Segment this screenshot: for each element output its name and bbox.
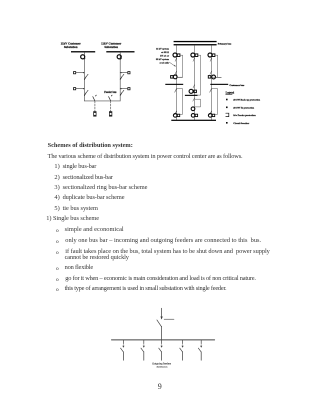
branch switch 1 [93,95,97,101]
outgoing column 3 isolator [210,88,212,92]
svg-text:Circuit breaker: Circuit breaker [233,122,250,125]
outgoing column 3 lower isolator [210,111,212,115]
customer bus left section [165,84,183,85]
customer bus right section [210,84,228,85]
svg-text:40 SW Back up protection: 40 SW Back up protection [233,99,260,102]
incoming feeder wire lower [161,327,163,340]
isolator switch left upper [84,75,88,80]
outgoing column 1 isolator [175,88,177,92]
svg-text:40 SW To protection: 40 SW To protection [233,106,255,109]
outgoing feeder 4 [180,340,184,360]
primary bus (lower bar) [174,44,217,45]
column 3 lower breaker circle [212,75,216,79]
legend item 3: feeder protection [226,113,257,117]
bottom bus [171,120,216,121]
relay box left upper [74,72,85,74]
page number [158,384,162,391]
label: incoming line [164,318,174,320]
column 3 lower relay square [208,76,211,79]
label: 11kV Customer Substation (left) [61,42,82,49]
CT circle right [117,55,121,59]
outgoing column 2 breaker [191,114,197,118]
load fuse box 1 [94,112,97,117]
outgoing column 3 breaker [208,114,214,118]
column 2 relay square [195,54,198,57]
legend item 2: to protection [226,106,255,109]
relay box right lower [120,88,130,90]
column 2 breaker circle [191,53,195,57]
column 1 relay square [177,54,180,57]
isolator switch right upper [120,75,124,80]
outgoing column 2 bypass loop [195,99,201,107]
outgoing column 2 CT circle [191,107,195,111]
incoming isolator blade [157,320,162,327]
isolator switch right lower [120,91,124,96]
outgoing feeder 1 [121,340,125,360]
svg-text:Primary bus: Primary bus [218,43,231,46]
svg-text:at s/s side: at s/s side [160,62,169,65]
wire: load drop 2 (dashed) [110,101,112,111]
feeder column 2 vertical [194,45,196,120]
outgoing column 2 isolator [193,98,195,101]
column 3 bypass wire [212,55,218,77]
column 1 bypass wire [177,55,183,77]
column 3 relay square [212,54,215,57]
column 2 upper isolator [193,58,195,61]
isolator switch left lower [84,91,88,96]
svg-text:S/w Feeder protection: S/w Feeder protection [233,114,256,117]
incoming feeder wire [161,308,163,319]
column 3 lower isolator [210,71,212,74]
wire: left feeder vertical [83,52,85,101]
feeder column 1 vertical [176,45,178,120]
column 1 lower isolator [175,71,177,74]
outgoing column 3 bypass loop [212,89,218,115]
CT circle left [81,55,85,59]
label: 11kV Customer Substation (right) [101,42,122,49]
bus-bar right [106,51,134,52]
svg-text:Substation: Substation [64,45,78,49]
svg-text:Customer bus: Customer bus [229,84,244,87]
column 2 mid breaker circle [189,89,193,93]
svg-text:Feeder bus: Feeder bus [104,91,116,94]
relay box right upper [120,72,130,74]
wire: bottom tie [84,100,120,102]
column 1 lower relay square [171,76,174,79]
outgoing feeder 2 [141,340,145,360]
incoming feeder arrowhead [160,317,162,320]
column 3 upper isolator [210,58,212,61]
column 2 bypass wire [195,55,201,95]
feeder column 3 vertical [211,45,213,120]
svg-text:distributors: distributors [156,365,167,368]
label: HV side note (5 tiny lines) [156,48,170,65]
leader arrow to column 1 [169,62,176,66]
wire: right feeder vertical [119,52,121,101]
legend item 4: circuit breaker [226,122,250,125]
single bus-bar [112,339,215,341]
outgoing feeder 3 (centre) [159,340,163,360]
label: outgoing feeders [152,363,171,369]
column 1 lower breaker circle [173,75,177,79]
outgoing column 1 lower isolator [175,111,177,115]
primary bus (upper bar) [174,41,217,42]
legend title [226,92,235,95]
outgoing column 1 bypass loop [177,89,183,115]
customer bus centre section [185,95,198,96]
branch switch 2 [109,95,113,101]
wire: load drop 1 (dashed) [94,101,96,111]
bus-bar left [71,51,95,52]
svg-text:Substation: Substation [104,45,118,49]
legend item 1: back up protection [226,99,261,102]
column 2 mid isolator [193,85,195,88]
svg-text:Legend: Legend [226,92,235,95]
column 1 breaker circle [173,53,177,57]
column 1 upper isolator [175,58,177,61]
column 2 mid relay square [194,90,197,93]
column 3 breaker circle [208,53,212,57]
load fuse box 2 [109,112,112,117]
relay box left lower [74,88,85,90]
outgoing feeder 5 [198,340,202,360]
outgoing column 1 breaker [173,114,179,118]
